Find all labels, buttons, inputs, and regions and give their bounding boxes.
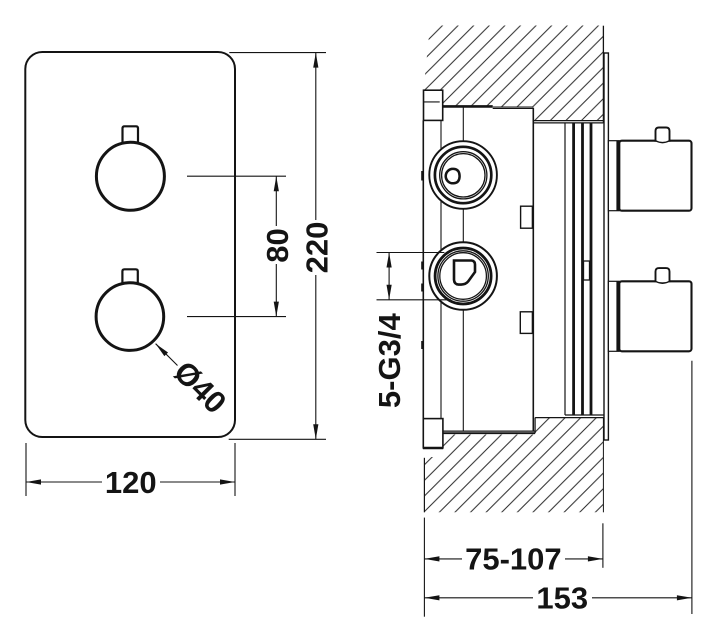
wall edge upper right: [602, 26, 604, 123]
knob 1 cap: [608, 141, 619, 211]
wall hatch lower: [424, 418, 603, 513]
dimension line 220: [315, 53, 317, 220]
body hidden line: [440, 107, 442, 431]
port 2 thin ring a: [438, 251, 488, 301]
dimension line 120: [26, 481, 102, 483]
extension line bottom (220): [229, 438, 326, 440]
mounting plate bottom edge: [565, 414, 604, 416]
wall edge lower right: [602, 418, 604, 513]
knob tab 2 (front): [122, 269, 137, 284]
knob tab 1 (front): [123, 126, 139, 143]
extension line 80 bottom: [187, 316, 286, 318]
body centerline: [462, 107, 464, 431]
knob circle 1 (front): [96, 142, 164, 210]
front plate outline: [25, 52, 235, 437]
body top edge: [441, 105, 493, 108]
svg-text:120: 120: [105, 465, 157, 500]
extension line 120 left: [25, 443, 27, 496]
port ticks left edge: [421, 171, 423, 181]
extension line right (153): [691, 361, 693, 614]
body left edge: [422, 120, 424, 418]
knob 1 body: [619, 141, 691, 211]
extension line G3/4 bottom: [377, 299, 452, 301]
stub 2 on body right: [520, 312, 532, 334]
dimension line G3/4: [388, 253, 390, 300]
plate clip: [584, 261, 590, 280]
svg-text:80: 80: [260, 228, 295, 262]
extension line 120 right: [234, 443, 236, 496]
knob 2 body: [619, 281, 691, 351]
body right edge: [532, 108, 534, 431]
svg-text:5-G3/4: 5-G3/4: [372, 313, 407, 409]
knob 2 tab: [656, 268, 670, 282]
extension line right (75-107): [602, 523, 604, 568]
port 2 thread socket: [454, 261, 475, 285]
dimension line 153: [424, 597, 533, 599]
wall hatch upper: [424, 26, 604, 121]
port 1 thick ring: [435, 147, 491, 203]
port 2 thick ring: [435, 248, 491, 304]
knob 2 cap: [608, 281, 619, 351]
svg-text:220: 220: [300, 222, 335, 274]
knob 1 tab: [656, 128, 670, 142]
knob circle 2 (front): [96, 283, 164, 351]
dimension line 80: [275, 176, 277, 226]
port 2 thin ring b: [440, 253, 487, 300]
wall edge lower left: [423, 458, 425, 513]
extension line left (75-107 and 153): [423, 518, 425, 617]
clip bottom-left: [423, 419, 443, 448]
port 2 outer circle: [429, 242, 497, 310]
escutcheon flange plate: [604, 53, 608, 440]
wall face upper (double line): [533, 120, 603, 122]
mounting plate layer lines: [564, 123, 566, 415]
extension line G3/4 top: [377, 252, 445, 254]
svg-text:75-107: 75-107: [465, 542, 562, 577]
svg-text:153: 153: [536, 580, 588, 615]
valve body fill: [423, 107, 533, 433]
stub 1 on body right: [521, 206, 533, 228]
port 1 pin cam: [446, 169, 460, 183]
extension line top (220): [229, 52, 326, 54]
port 1 thin ring a: [440, 152, 487, 199]
wall face lower: [535, 417, 603, 419]
port 1 outer circle: [429, 141, 497, 209]
clip top-left: [424, 90, 443, 120]
body bottom edge (double): [442, 430, 535, 432]
extension line 80 top: [187, 175, 286, 177]
leader arrow diameter 40: [156, 344, 178, 366]
port 1 thin ring b: [442, 154, 485, 197]
dimension line 75-107: [424, 558, 462, 560]
